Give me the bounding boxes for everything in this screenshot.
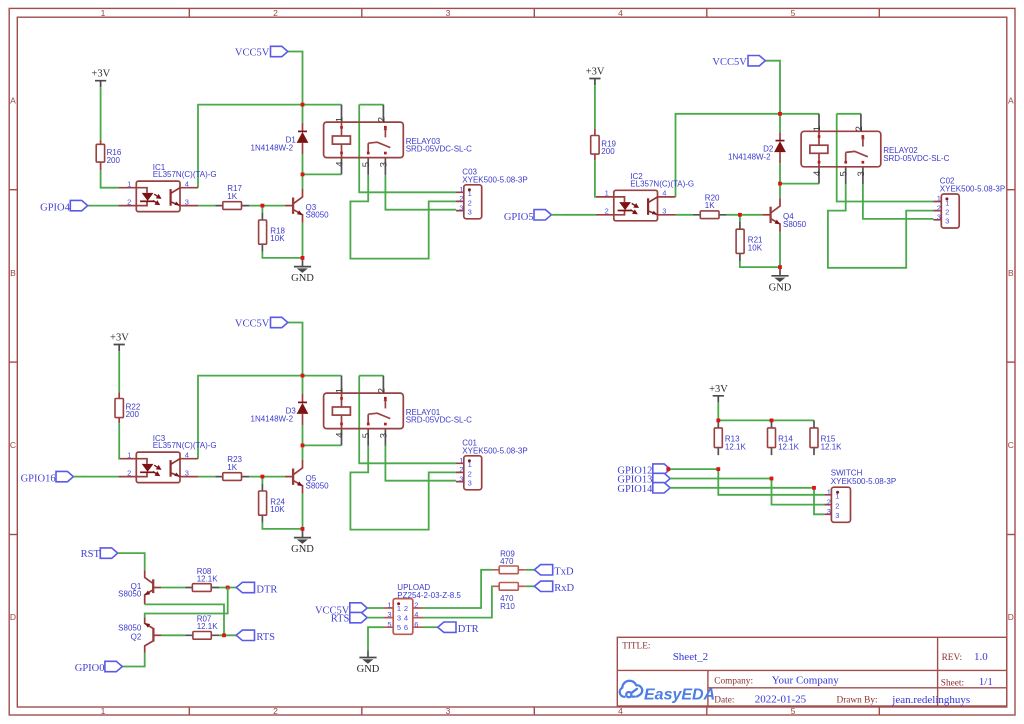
svg-text:R23: R23	[227, 455, 242, 464]
svg-text:A: A	[10, 96, 16, 106]
svg-text:B: B	[1008, 268, 1014, 278]
svg-text:jean.redelinghuys: jean.redelinghuys	[891, 694, 970, 706]
svg-text:200: 200	[601, 147, 615, 156]
junction R14 bottom	[770, 477, 774, 481]
wire R19 to IC2 pin1	[595, 160, 596, 197]
net flag GPIO12	[653, 464, 670, 474]
net flag RTS (upload)	[350, 612, 367, 622]
svg-text:2: 2	[273, 8, 278, 18]
resistor R13 pins	[717, 420, 719, 455]
svg-text:R10: R10	[500, 602, 515, 611]
svg-text:TITLE:: TITLE:	[622, 641, 650, 651]
wire pin6 to DTR	[423, 626, 438, 628]
svg-text:1/1: 1/1	[979, 676, 993, 688]
junction R13 bottom	[716, 467, 720, 471]
svg-text:Drawn By:: Drawn By:	[837, 696, 878, 706]
wire pin4 to R10	[423, 586, 493, 617]
svg-text:DTR: DTR	[458, 624, 479, 635]
svg-text:Date:: Date:	[714, 696, 734, 706]
svg-text:Q5: Q5	[306, 474, 317, 483]
resistor R22 leads	[118, 392, 120, 423]
svg-text:12.1K: 12.1K	[197, 622, 219, 631]
svg-text:GPIO4: GPIO4	[40, 203, 71, 214]
connector SWITCH	[831, 487, 850, 522]
resistor R08	[192, 584, 211, 592]
wire pin2 to R09	[423, 570, 493, 608]
svg-text:RTS: RTS	[256, 632, 275, 643]
wire RST to Q1 collector	[118, 553, 145, 570]
svg-text:2: 2	[827, 497, 831, 506]
svg-text:IC2: IC2	[630, 172, 643, 181]
svg-text:3: 3	[835, 511, 839, 520]
svg-text:12.1K: 12.1K	[725, 443, 747, 452]
svg-text:Q3: Q3	[306, 203, 317, 212]
resistor R07	[193, 632, 211, 640]
svg-text:C: C	[10, 440, 16, 450]
wire DTR junction to Q2 emitter	[145, 588, 228, 618]
svg-text:C: C	[1008, 440, 1014, 450]
net flag GPIO5	[534, 210, 551, 220]
title block	[617, 637, 1007, 706]
wire GPIO14 row	[670, 488, 824, 515]
svg-text:2: 2	[404, 604, 408, 613]
svg-text:RELAY01: RELAY01	[406, 408, 441, 417]
resistor R16 leads	[100, 140, 102, 170]
resistor R15 pins	[813, 420, 815, 455]
wire +3V to R16	[100, 87, 102, 140]
header UPLOAD pins	[384, 608, 423, 627]
svg-text:B: B	[10, 268, 16, 278]
wire R08 to DTR	[219, 587, 236, 589]
svg-text:1: 1	[827, 488, 831, 497]
svg-text:2: 2	[835, 502, 839, 511]
junction R14 top	[770, 419, 774, 423]
resistor R14	[768, 428, 776, 448]
svg-text:1: 1	[101, 706, 106, 716]
resistor R09	[499, 566, 518, 574]
svg-text:Sheet:: Sheet:	[941, 679, 964, 689]
net flag DTR	[236, 582, 254, 592]
svg-text:PZ254-2-03-Z-8.5: PZ254-2-03-Z-8.5	[397, 591, 461, 600]
wire Q1 base to R08	[161, 587, 185, 589]
wire GPIO13 row	[670, 479, 824, 505]
header UPLOAD body	[393, 599, 413, 635]
resistor R14 pins	[771, 420, 773, 455]
junction RTS	[222, 633, 226, 637]
+3V (ch3)	[110, 333, 129, 352]
wire Q1 emitter to RTS junction	[145, 604, 224, 635]
svg-text:D2: D2	[763, 145, 774, 154]
svg-text:R21: R21	[748, 236, 763, 245]
resistor R10 pins	[493, 585, 526, 587]
net flag GPIO16	[56, 471, 73, 481]
svg-text:C03: C03	[462, 168, 477, 177]
svg-text:4: 4	[618, 8, 623, 18]
svg-text:1.0: 1.0	[974, 651, 988, 663]
svg-text:1: 1	[387, 601, 391, 610]
svg-text:RTS: RTS	[331, 613, 350, 624]
+3V (switch)	[709, 384, 728, 403]
net flag TxD	[534, 565, 552, 575]
svg-text:Q4: Q4	[783, 212, 794, 221]
wire Q2 collector to GPIO0	[122, 653, 144, 667]
resistor R19 leads	[594, 129, 596, 160]
+3V (ch2)	[586, 67, 605, 86]
net flag GPIO0	[105, 661, 122, 671]
svg-text:3: 3	[446, 706, 451, 716]
net flag VCC5V (upload)	[350, 603, 367, 613]
wire flag patch ch3	[73, 476, 87, 478]
wire +3V rail	[718, 402, 814, 420]
svg-text:12.1K: 12.1K	[197, 574, 219, 583]
junction R15 bottom	[812, 486, 816, 490]
svg-text:C02: C02	[940, 177, 955, 186]
svg-text:RELAY03: RELAY03	[406, 137, 441, 146]
svg-text:R24: R24	[270, 497, 285, 506]
svg-text:3: 3	[827, 507, 831, 516]
svg-text:RxD: RxD	[554, 583, 574, 594]
resistor R16	[96, 144, 104, 162]
svg-text:4: 4	[618, 706, 623, 716]
net flag RxD	[534, 581, 552, 591]
wire Q2 base to R07	[161, 634, 185, 636]
svg-text:EasyEDA: EasyEDA	[644, 687, 715, 704]
net flag RST	[100, 548, 117, 558]
gnd stub (upload)	[367, 650, 369, 657]
net flag GPIO13	[653, 473, 670, 483]
svg-text:DTR: DTR	[256, 584, 277, 595]
svg-text:A: A	[1008, 96, 1014, 106]
wire R09 to TxD	[526, 569, 535, 571]
svg-text:D: D	[10, 612, 16, 622]
svg-text:GPIO5: GPIO5	[504, 212, 534, 223]
junction GPIO12 flag	[666, 467, 670, 471]
wire R10 to RxD	[526, 585, 535, 587]
svg-text:2: 2	[273, 706, 278, 716]
svg-text:1: 1	[397, 604, 401, 613]
svg-text:4: 4	[414, 610, 418, 619]
svg-text:Company:: Company:	[714, 676, 753, 686]
svg-text:D1: D1	[286, 136, 297, 145]
svg-text:S8050: S8050	[118, 590, 142, 599]
connector SWITCH pins	[824, 495, 831, 515]
svg-text:200: 200	[126, 410, 140, 419]
svg-text:5: 5	[397, 623, 401, 632]
GND symbol (upload)	[359, 657, 376, 659]
transistor Q1 (mirrored)	[145, 570, 162, 604]
svg-text:2: 2	[414, 601, 418, 610]
svg-text:IC1: IC1	[153, 163, 166, 172]
svg-text:5: 5	[791, 8, 796, 18]
resistor R09 pins	[493, 569, 526, 571]
resistor R08 pins	[185, 587, 219, 589]
svg-text:Sheet_2: Sheet_2	[673, 651, 708, 663]
wire RTS to pin3	[367, 617, 383, 619]
svg-text:12.1K: 12.1K	[821, 443, 843, 452]
EasyEDA logo	[620, 681, 642, 697]
junction DTR	[226, 586, 230, 590]
svg-text:R17: R17	[227, 184, 242, 193]
svg-text:GPIO0: GPIO0	[75, 663, 105, 674]
svg-text:200: 200	[107, 156, 121, 165]
svg-text:5: 5	[791, 706, 796, 716]
svg-text:REV:: REV:	[942, 653, 963, 663]
svg-text:R18: R18	[270, 226, 285, 235]
svg-text:5: 5	[387, 620, 391, 629]
wire +3V to R19	[594, 85, 596, 129]
svg-text:RELAY02: RELAY02	[883, 146, 918, 155]
svg-text:6: 6	[414, 620, 418, 629]
svg-text:6: 6	[404, 623, 408, 632]
net flag DTR (upload)	[438, 622, 456, 632]
wire R07 to RTS	[219, 634, 236, 636]
svg-text:D: D	[1008, 612, 1014, 622]
transistor Q2 (mirrored, flipped)	[145, 618, 162, 653]
svg-text:D3: D3	[286, 407, 297, 416]
net flag GPIO14	[653, 483, 670, 493]
svg-text:XYEK500-5.08-3P: XYEK500-5.08-3P	[831, 477, 896, 486]
resistor R22	[115, 399, 123, 418]
svg-text:GND: GND	[357, 664, 380, 675]
svg-text:TxD: TxD	[554, 567, 574, 578]
junction R13 top	[716, 419, 720, 423]
svg-text:S8050: S8050	[118, 623, 142, 632]
svg-text:470: 470	[500, 557, 514, 566]
+3V (ch1)	[91, 69, 110, 88]
svg-text:Q2: Q2	[131, 633, 142, 642]
svg-text:RST: RST	[81, 549, 101, 560]
svg-text:3: 3	[446, 8, 451, 18]
net flag RTS	[236, 630, 254, 640]
svg-text:3: 3	[397, 614, 401, 623]
svg-text:IC3: IC3	[153, 434, 166, 443]
svg-text:GPIO16: GPIO16	[21, 474, 56, 485]
wire R22 to IC3 pin1	[117, 423, 120, 458]
svg-text:Your Company: Your Company	[772, 675, 840, 687]
svg-text:C01: C01	[462, 439, 477, 448]
wire R16 to IC1 pin1	[101, 170, 119, 187]
resistor R19	[591, 136, 599, 155]
svg-text:1: 1	[835, 492, 839, 501]
svg-text:4: 4	[404, 614, 408, 623]
resistor R10	[499, 583, 518, 591]
svg-text:R20: R20	[705, 193, 720, 202]
wire flag patch ch2	[551, 214, 565, 216]
svg-text:1: 1	[101, 8, 106, 18]
wire VCC5V to pin1	[367, 607, 383, 609]
svg-text:2022-01-25: 2022-01-25	[755, 694, 807, 706]
wire pin5 to GND	[368, 627, 384, 650]
resistor R15	[810, 428, 818, 448]
resistor R07 pins	[185, 634, 219, 636]
resistor R13	[714, 428, 722, 448]
svg-text:GPIO14: GPIO14	[617, 484, 653, 495]
wire +3V to R22	[118, 351, 120, 392]
svg-text:12.1K: 12.1K	[778, 443, 800, 452]
svg-text:3: 3	[387, 610, 391, 619]
wire GPIO12 row	[670, 469, 824, 495]
net flag GPIO4	[70, 200, 87, 210]
